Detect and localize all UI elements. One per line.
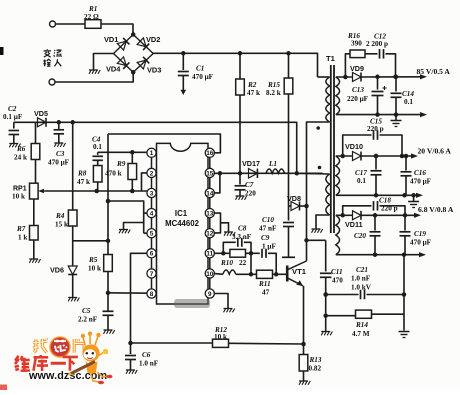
capacitor C10 (259, 206, 295, 257)
svg-text:3.3 nF: 3.3 nF (232, 233, 252, 241)
pin 15 (205, 168, 214, 177)
pin 6 (147, 249, 156, 258)
svg-text:470: 470 (332, 277, 343, 285)
capacitor C5 (78, 307, 114, 330)
scan smudge (174, 299, 210, 308)
svg-text:VD5: VD5 (34, 109, 48, 118)
capacitor C17 (355, 154, 382, 196)
watermark char xia (63, 357, 78, 371)
wire (246, 251, 260, 256)
ground (126, 370, 137, 374)
svg-text:C11: C11 (331, 268, 343, 276)
wire pin8 net (108, 292, 147, 294)
wire pin1-8 chain (151, 153, 153, 294)
svg-text:R9: R9 (116, 160, 126, 168)
pin 16 (205, 148, 214, 157)
ground (391, 115, 402, 127)
node (94, 189, 134, 194)
node (393, 75, 398, 80)
inductor L1 (266, 160, 285, 173)
diode VD6 (50, 266, 77, 298)
resistor R8 (77, 166, 102, 192)
wire Vcc rail (14, 122, 297, 173)
svg-text:6: 6 (150, 251, 154, 258)
svg-text:T1: T1 (326, 54, 336, 63)
ground (104, 330, 115, 334)
svg-text:10 k: 10 k (12, 193, 25, 201)
node (375, 112, 398, 117)
capacitor C18 snubber (343, 197, 405, 216)
wire (336, 155, 353, 157)
svg-text:0.1: 0.1 (93, 143, 102, 151)
pin 9 (205, 289, 214, 298)
pin 5 (147, 229, 156, 238)
svg-text:15 k: 15 k (55, 221, 68, 229)
ground (321, 332, 332, 336)
svg-text:10: 10 (206, 271, 214, 278)
svg-text:470 μF: 470 μF (48, 159, 70, 167)
label 85V output (417, 67, 451, 76)
label C15 (367, 118, 384, 134)
transistor Q VT1 (273, 261, 307, 286)
watermark mascot antennae (81, 332, 101, 346)
svg-text:0.1 μF: 0.1 μF (3, 113, 23, 121)
svg-text:C10: C10 (262, 216, 274, 224)
ground (119, 230, 130, 234)
pin 12 (205, 229, 214, 238)
resistor R13 (299, 344, 322, 381)
node (128, 341, 133, 346)
svg-text:2 200 p: 2 200 p (366, 40, 388, 48)
svg-text:R1: R1 (88, 5, 97, 13)
ground (312, 229, 323, 233)
ground (236, 196, 247, 200)
wire (336, 76, 353, 78)
wire VT1 emitter (303, 286, 305, 344)
svg-text:1.0 nF: 1.0 nF (139, 360, 159, 368)
winding T1 aux (297, 173, 330, 228)
svg-text:VD10: VD10 (345, 142, 363, 151)
ground (408, 195, 419, 207)
svg-text:VD2: VD2 (146, 35, 160, 44)
capacitor C14 (391, 75, 415, 115)
svg-text:1.0 kV: 1.0 kV (351, 284, 372, 292)
svg-text:4: 4 (150, 211, 154, 218)
capacitor C21 (323, 266, 406, 299)
svg-text:VD17: VD17 (242, 159, 260, 168)
resistor R9 (105, 152, 137, 191)
inductor base bead (223, 270, 236, 274)
svg-text:C13: C13 (352, 86, 364, 94)
pin 13 (205, 209, 214, 218)
pin 14 (205, 188, 214, 197)
node bridge bottom (131, 70, 136, 75)
resistor R10 (220, 249, 247, 267)
wire R5 riser (107, 134, 109, 255)
svg-text:R15: R15 (267, 81, 280, 89)
terminal AC input bottom (49, 79, 55, 85)
diode VD2 (137, 35, 160, 50)
diode VD17 (242, 159, 260, 178)
watermark mascot head (82, 344, 99, 361)
capacitor C2 (3, 105, 23, 143)
svg-text:C8: C8 (238, 225, 247, 233)
svg-text:1 μF: 1 μF (262, 243, 276, 251)
svg-text:220 p: 220 p (367, 125, 384, 133)
watermark char xin (54, 340, 67, 352)
wire pin4-5 link (106, 199, 147, 233)
pin 2 (147, 168, 156, 177)
capacitor C8 branch (223, 225, 251, 254)
op-amp U IC1 body (157, 143, 209, 304)
wire 85V return rail (336, 114, 423, 116)
svg-text:2: 2 (150, 170, 154, 177)
label AC input (43, 49, 61, 66)
diode VD3 (137, 57, 161, 75)
node aux polarity dot (318, 166, 322, 170)
svg-text:220 p: 220 p (381, 205, 398, 213)
capacitor C6 (125, 343, 159, 370)
resistor R7 (16, 199, 38, 259)
capacitor C15 snubber (343, 130, 402, 156)
svg-text:R5: R5 (88, 256, 98, 264)
wire pin13-12 link (214, 213, 221, 233)
node (301, 342, 306, 347)
capacitor C3 (48, 120, 70, 166)
svg-text:10 k: 10 k (214, 333, 227, 341)
svg-text:VD4: VD4 (106, 65, 121, 74)
node (323, 292, 328, 297)
capacitor C9 (261, 234, 276, 274)
diode VD4 (106, 57, 129, 74)
svg-text:24 k: 24 k (14, 154, 27, 162)
wire pin13 ground stub (221, 223, 229, 232)
label IC1 (165, 209, 199, 228)
pin 11 (205, 249, 214, 258)
svg-text:C18: C18 (379, 197, 391, 205)
node (218, 171, 299, 176)
label 20V output (418, 147, 452, 156)
wire bridge to ground (94, 54, 114, 70)
winding T1 secondary1 (336, 77, 340, 115)
svg-text:C1: C1 (196, 65, 204, 73)
capacitor C7 (235, 173, 257, 197)
pin 3 (147, 188, 156, 197)
ground (224, 232, 235, 236)
svg-text:C14: C14 (402, 90, 414, 98)
node (274, 272, 279, 277)
wire pin1 net (98, 150, 148, 155)
ground (89, 70, 100, 74)
node primary polarity dot (316, 126, 320, 130)
wire R4 to R5 (73, 239, 111, 244)
diode VD1 (104, 35, 129, 50)
svg-text:R8: R8 (77, 170, 87, 178)
resistor R14 (323, 310, 404, 338)
diode VD11 (345, 211, 363, 229)
svg-text:2.2 nF: 2.2 nF (78, 316, 98, 324)
transformer core (331, 65, 334, 233)
svg-text:C17: C17 (355, 169, 367, 177)
svg-text:22 Ω: 22 Ω (84, 13, 99, 21)
ground (54, 143, 65, 147)
svg-text:C2: C2 (8, 105, 17, 113)
terminal AC input top (50, 21, 56, 27)
wire pin45 ground stub (124, 223, 144, 230)
wire pin2 jog (142, 173, 148, 191)
svg-text:1 k: 1 k (18, 234, 27, 242)
svg-text:12: 12 (206, 231, 214, 238)
svg-text:20 V/0.6 A: 20 V/0.6 A (418, 147, 452, 156)
svg-text:C21: C21 (356, 266, 368, 274)
arrow (420, 74, 427, 79)
arrow (416, 193, 423, 198)
arrow (411, 153, 418, 158)
wire pin9 stub (214, 294, 229, 309)
svg-text:C6: C6 (142, 351, 151, 359)
svg-text:13: 13 (206, 211, 214, 218)
wire pin15 Vcc net (214, 172, 323, 174)
svg-text:11: 11 (206, 251, 213, 258)
capacitor C20 (354, 213, 381, 255)
svg-text:VD1: VD1 (104, 35, 118, 44)
svg-text:3: 3 (150, 190, 154, 197)
transformer T1 label (326, 54, 336, 63)
svg-text:8: 8 (150, 291, 154, 298)
ground (224, 309, 235, 313)
svg-text:VD11: VD11 (345, 220, 363, 229)
svg-text:47 k: 47 k (77, 178, 90, 186)
winding T1 secondary3 (336, 215, 340, 254)
svg-text:470 μF: 470 μF (410, 178, 432, 186)
ground (299, 381, 310, 385)
watermark char pian (74, 339, 84, 353)
resistor R16 (347, 32, 365, 58)
winding T1 secondary2 (336, 156, 340, 195)
watermark mascot body (86, 361, 98, 374)
arrow (414, 213, 421, 218)
arrow (419, 252, 426, 257)
watermark mascot arm leg (91, 349, 113, 384)
svg-text:16: 16 (206, 150, 214, 157)
pin 1 (147, 148, 156, 157)
capacitor C1 (178, 53, 214, 95)
svg-text:7: 7 (150, 271, 154, 278)
pin 10 (205, 269, 214, 278)
svg-text:C19: C19 (414, 230, 426, 238)
wire (365, 53, 378, 55)
svg-text:4.7 M: 4.7 M (352, 330, 370, 338)
svg-text:5: 5 (150, 231, 154, 238)
pin 8 (147, 289, 156, 298)
ground (9, 144, 20, 148)
svg-text:470 μF: 470 μF (192, 73, 214, 81)
capacitor C19 (400, 213, 432, 255)
wire bottom input (55, 72, 133, 82)
resistor R12 (131, 326, 304, 347)
pin 4 (147, 209, 156, 218)
diode VD8 (287, 194, 309, 211)
arrow (420, 112, 427, 117)
svg-text:470 μF: 470 μF (410, 239, 432, 247)
svg-text:390: 390 (351, 40, 362, 48)
svg-text:1.0 nF: 1.0 nF (351, 275, 371, 283)
svg-text:15: 15 (206, 170, 214, 177)
watermark corner fragment (0, 385, 7, 391)
label 6.8V output (418, 205, 454, 214)
svg-text:8.2 k: 8.2 k (266, 89, 281, 97)
svg-text:0.1: 0.1 (357, 177, 366, 185)
svg-text:R10: R10 (220, 259, 233, 267)
resistor R5 (88, 255, 112, 311)
wire (336, 213, 353, 218)
svg-text:47 k: 47 k (247, 89, 260, 97)
svg-text:R2: R2 (247, 81, 257, 89)
wire 85V rail (361, 76, 423, 78)
svg-text:C20: C20 (354, 232, 366, 240)
wire bridge frame (114, 35, 154, 73)
capacitor C13 (347, 77, 387, 115)
wire 20V return rail (336, 194, 419, 196)
svg-text:MC44602: MC44602 (165, 219, 199, 228)
svg-text:1: 1 (150, 150, 154, 157)
svg-text:R13: R13 (309, 356, 322, 364)
ground (29, 259, 40, 263)
node C1 junction (181, 51, 186, 56)
svg-text:VD9: VD9 (350, 64, 364, 73)
svg-text:47: 47 (262, 289, 270, 297)
svg-text:VD3: VD3 (147, 66, 161, 75)
svg-text:C3: C3 (56, 150, 65, 158)
scan blob (0, 47, 4, 55)
node (375, 75, 380, 80)
svg-text:IC1: IC1 (175, 209, 188, 218)
svg-text:RP1: RP1 (13, 186, 27, 193)
svg-text:47 nF: 47 nF (259, 225, 277, 233)
svg-text:R4: R4 (55, 212, 65, 220)
svg-text:VD6: VD6 (50, 266, 64, 275)
svg-text:6.8 V/0.8 A: 6.8 V/0.8 A (418, 205, 454, 214)
wire 6.8V rail (361, 214, 417, 216)
watermark char wei (15, 356, 30, 371)
svg-text:R14: R14 (355, 321, 368, 329)
wire pin16 top net (108, 134, 220, 153)
wire (403, 255, 405, 331)
svg-text:C16: C16 (414, 169, 426, 177)
wire snubber (345, 54, 350, 77)
wire 6.8V return rail (336, 254, 422, 256)
pin 7 (147, 269, 156, 278)
wire (386, 54, 396, 77)
svg-text:10 k: 10 k (88, 265, 101, 273)
node (340, 154, 404, 159)
winding T1 primary (307, 77, 330, 261)
diode VD9 (350, 64, 364, 82)
svg-text:VD8: VD8 (287, 194, 301, 203)
resistor R4 (55, 120, 77, 265)
resistor R1 (84, 5, 101, 28)
potentiometer RP1 (12, 183, 45, 200)
wire (56, 23, 86, 25)
capacitor C12 (366, 33, 388, 59)
wire C11 tap (304, 238, 325, 243)
capacitor C11 (320, 240, 343, 331)
capacitor C16 (401, 154, 432, 196)
diode VD10 (345, 142, 363, 161)
wire pin14 jog (214, 173, 220, 193)
watermark char zhao (33, 339, 47, 353)
wire pin16-9 chain (209, 153, 211, 294)
wire 20V rail (361, 155, 414, 157)
wire pin6 net (131, 253, 148, 343)
resistor R15 (266, 51, 293, 206)
wire (101, 24, 133, 35)
watermark char ku (33, 355, 48, 371)
watermark char yi (51, 362, 66, 365)
svg-text:0.1: 0.1 (404, 98, 413, 106)
svg-text:22: 22 (239, 259, 247, 267)
wire (236, 253, 257, 276)
resistor R6 (14, 122, 40, 183)
svg-text:VT1: VT1 (292, 267, 307, 276)
node (374, 193, 416, 198)
wire pin11 row (214, 251, 230, 256)
ground (68, 298, 79, 302)
svg-text:R6: R6 (16, 145, 26, 153)
watermark red circle (50, 337, 70, 357)
node (343, 75, 348, 80)
diode VD5 (34, 109, 48, 127)
svg-text:220 μF: 220 μF (347, 95, 369, 103)
svg-text:14: 14 (206, 190, 214, 197)
svg-text:C9: C9 (261, 234, 270, 242)
wire pin10 row (214, 272, 223, 275)
svg-text:R7: R7 (16, 225, 26, 233)
svg-text:C7: C7 (245, 181, 254, 189)
resistor R11 (257, 270, 273, 296)
svg-text:R11: R11 (258, 280, 271, 288)
svg-text:L1: L1 (268, 160, 277, 168)
watermark url (28, 370, 107, 382)
svg-text:0.82: 0.82 (309, 365, 322, 373)
ground (399, 332, 410, 338)
svg-text:85 V/0.5 A: 85 V/0.5 A (417, 67, 451, 76)
wire main DC rail (153, 53, 317, 77)
node (106, 291, 111, 296)
resistor R2 (236, 51, 260, 173)
node (373, 252, 407, 257)
node bridge top (131, 32, 136, 37)
watermark mascot pencil (67, 362, 95, 376)
svg-text:C5: C5 (82, 307, 91, 315)
svg-text:9: 9 (208, 291, 212, 298)
wire RP1 wiper net (45, 190, 147, 192)
capacitor C4 (92, 136, 103, 166)
